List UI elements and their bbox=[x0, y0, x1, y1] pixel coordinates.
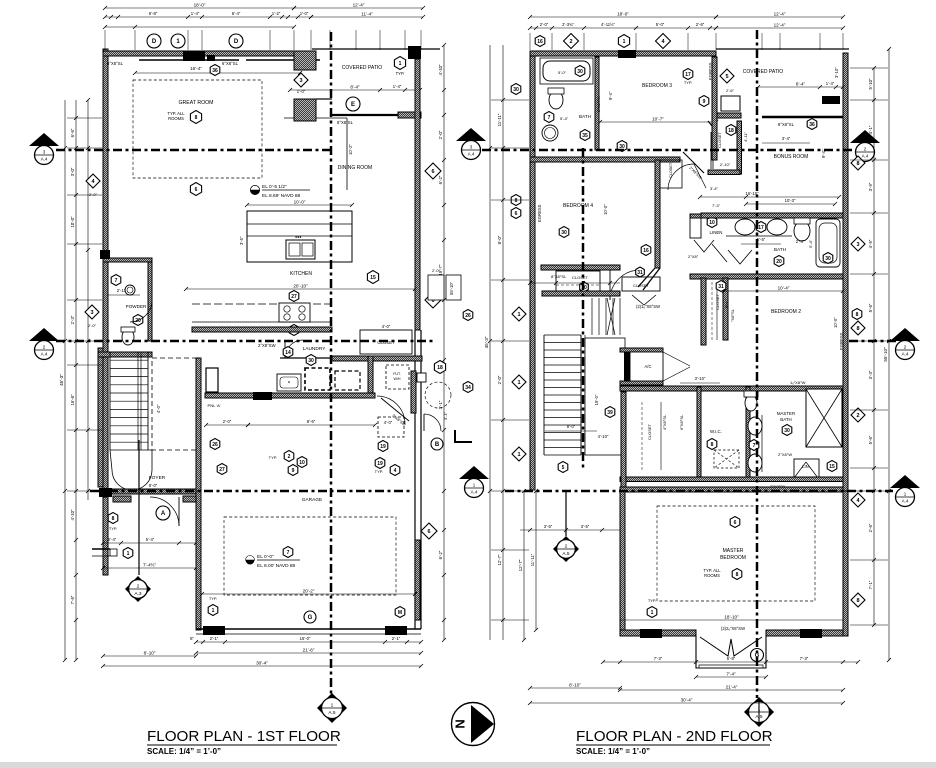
staircase treads 2nd floor bbox=[544, 335, 581, 455]
dimension 8'-10 row 2nd bbox=[528, 683, 622, 691]
svg-text:2’-0”: 2’-0” bbox=[540, 22, 549, 27]
svg-text:1’-4”: 1’-4” bbox=[191, 11, 200, 16]
svg-text:DINING ROOM: DINING ROOM bbox=[338, 165, 372, 171]
svg-text:PNL ‘A’: PNL ‘A’ bbox=[208, 403, 221, 408]
svg-text:4’-0”: 4’-0” bbox=[384, 420, 393, 425]
extension lines left edge left plan bbox=[67, 118, 102, 491]
label 12'-7 bottom left bbox=[518, 489, 526, 642]
svg-text:7: 7 bbox=[115, 278, 118, 284]
svg-text:20: 20 bbox=[776, 259, 782, 265]
svg-text:SCALE: 1/4” = 1’-0”: SCALE: 1/4” = 1’-0” bbox=[147, 747, 221, 756]
kitchen counter lower bbox=[192, 304, 332, 322]
dimension 7'-4 row 2nd bbox=[694, 672, 768, 680]
svg-text:20’-2”: 20’-2” bbox=[303, 589, 315, 594]
svg-text:2: 2 bbox=[288, 454, 291, 460]
hexagon 30 hall bbox=[306, 355, 316, 366]
diamond 4 top right plan bbox=[656, 34, 671, 49]
svg-text:M: M bbox=[398, 610, 402, 616]
svg-text:G: G bbox=[308, 615, 313, 621]
room label GARAGE bbox=[302, 497, 323, 503]
svg-text:3’-5”: 3’-5” bbox=[239, 236, 244, 245]
room label BEDROOM 4 bbox=[563, 203, 593, 209]
wall front entry bbox=[99, 488, 196, 497]
svg-text:°X8°SL: °X8°SL bbox=[730, 308, 735, 322]
hexagon 16 hall bbox=[641, 245, 651, 256]
svg-text:26: 26 bbox=[212, 442, 218, 448]
dashed circle water heater bbox=[425, 382, 451, 408]
dimension 18'-0 top right plan bbox=[528, 12, 718, 20]
svg-text:5’-6”: 5’-6” bbox=[868, 303, 873, 312]
dimension column right of left plan bbox=[438, 43, 446, 642]
label 2'-11 bbox=[107, 288, 140, 295]
label EL 8.00 NAVD garage bbox=[257, 563, 296, 569]
hexagon 1 porch bbox=[110, 548, 133, 559]
label 2x8 SW laundry bbox=[258, 343, 276, 348]
svg-text:TYP.: TYP. bbox=[209, 596, 217, 601]
stair center rail bbox=[138, 352, 141, 450]
svg-text:5’-4”: 5’-4” bbox=[808, 239, 813, 248]
svg-text:2’-0”: 2’-0” bbox=[432, 268, 441, 273]
window header patio 2nd bbox=[822, 96, 840, 104]
svg-text:COVERED PATIO: COVERED PATIO bbox=[342, 65, 382, 71]
svg-text:4°X8°SL: 4°X8°SL bbox=[662, 414, 667, 430]
AC closet bbox=[620, 348, 663, 385]
svg-text:W/H: W/H bbox=[394, 377, 401, 381]
svg-text:2’-1”: 2’-1” bbox=[392, 636, 401, 641]
garage door posts bbox=[203, 626, 407, 635]
svg-text:18’-10”: 18’-10” bbox=[724, 615, 739, 620]
window header left wall bbox=[100, 250, 110, 259]
extension lines top left plan bbox=[105, 30, 421, 50]
section marker 2/A3 foyer bbox=[125, 576, 151, 602]
shower master bbox=[806, 389, 842, 447]
svg-text:6’-4”: 6’-4” bbox=[232, 11, 241, 16]
svg-text:CLOSET: CLOSET bbox=[669, 162, 673, 178]
hexagon 7 bath2 bbox=[544, 112, 568, 123]
svg-text:POWDER: POWDER bbox=[126, 304, 147, 309]
dimension 10'-7 bed3 bbox=[598, 117, 718, 125]
svg-text:18’-0”: 18’-0” bbox=[194, 3, 206, 8]
svg-text:30’-4”: 30’-4” bbox=[256, 661, 268, 666]
svg-text:8: 8 bbox=[856, 312, 859, 318]
diamond 4 left wall bbox=[86, 174, 100, 197]
hexagon 17 bath2 bbox=[756, 222, 766, 233]
svg-text:7’-1”: 7’-1” bbox=[868, 580, 873, 589]
circle marker D bbox=[147, 34, 161, 48]
window hatch right wall low bbox=[415, 540, 420, 620]
diamond 2 top right plan bbox=[564, 34, 579, 49]
svg-text:8’-4”: 8’-4” bbox=[796, 82, 806, 87]
svg-text:6’-8”: 6’-8” bbox=[149, 11, 158, 16]
svg-text:3’-4”: 3’-4” bbox=[782, 136, 791, 141]
label 10'-0 bed4 bbox=[603, 204, 608, 215]
label 10'-0 bed2 bbox=[833, 317, 838, 328]
svg-text:7’-3”: 7’-3” bbox=[800, 656, 809, 661]
room label DINING ROOM bbox=[338, 165, 372, 171]
svg-text:18: 18 bbox=[728, 128, 734, 134]
svg-text:6: 6 bbox=[195, 187, 198, 193]
hexagon 9 typ bbox=[288, 465, 298, 476]
svg-text:CLOSET: CLOSET bbox=[572, 275, 589, 280]
svg-text:16’-4”: 16’-4” bbox=[190, 66, 202, 71]
svg-text:BONUS ROOM: BONUS ROOM bbox=[774, 154, 809, 160]
hexagon 35 bath wall bbox=[580, 130, 590, 141]
master ceiling dashed rect bbox=[657, 506, 815, 601]
label CLOSET rot master bbox=[642, 402, 661, 470]
garage ceiling dashed rect bbox=[224, 517, 396, 595]
section dash line y341 left plan bbox=[56, 340, 436, 343]
label CLOSET bed2 bbox=[715, 293, 720, 310]
dimension 8'-10 row bbox=[101, 651, 198, 659]
hexagon 18 right wall bbox=[434, 361, 445, 374]
svg-text:10’-7”: 10’-7” bbox=[652, 117, 664, 122]
svg-text:CLOSET: CLOSET bbox=[715, 293, 720, 310]
dimension garage door row bbox=[190, 636, 423, 644]
svg-text:4’-11½”: 4’-11½” bbox=[601, 22, 615, 27]
dimension 20'-10 kitchen bbox=[184, 284, 417, 292]
svg-text:●●●: ●●● bbox=[295, 235, 301, 239]
stairwell walls bbox=[98, 348, 103, 487]
dimension 21'-6 row bbox=[194, 648, 423, 656]
hexagon 26 mudhx bbox=[210, 439, 220, 450]
label PNL A bbox=[208, 403, 221, 408]
hexagon 8 master bbox=[732, 569, 742, 580]
svg-text:MASTER: MASTER bbox=[723, 548, 744, 554]
grey footer strip bbox=[0, 762, 936, 768]
hexagon 16 rp top bbox=[535, 36, 545, 47]
section dash x583 right plan bbox=[582, 148, 585, 470]
svg-text:BEDROOM 3: BEDROOM 3 bbox=[642, 83, 672, 89]
wall bath right vertical bbox=[595, 57, 599, 150]
svg-text:4’-10”: 4’-10” bbox=[438, 64, 443, 76]
svg-text:5’-0”: 5’-0” bbox=[558, 70, 567, 75]
svg-text:W.I.C.: W.I.C. bbox=[710, 429, 722, 434]
room label BEDROOM 3 bbox=[642, 83, 672, 89]
diamond 6b right wall bbox=[425, 292, 441, 308]
interior wall top-right nook bbox=[294, 51, 332, 121]
wall left exterior 2nd floor bbox=[530, 51, 535, 490]
room label MASTER BATH bbox=[777, 411, 795, 422]
svg-text:1’-2”: 1’-2” bbox=[272, 11, 281, 16]
garage front wall bbox=[196, 629, 421, 634]
svg-text:MASTER: MASTER bbox=[777, 411, 795, 416]
svg-text:17: 17 bbox=[685, 72, 691, 78]
svg-text:3: 3 bbox=[856, 242, 859, 248]
section heavy y491 right plan bbox=[505, 490, 893, 493]
svg-text:FLOOR PLAN - 1ST FLOOR: FLOOR PLAN - 1ST FLOOR bbox=[147, 728, 341, 745]
label 3'-5 row bbox=[528, 281, 620, 285]
svg-text:A: A bbox=[161, 511, 166, 517]
svg-text:BATH: BATH bbox=[774, 247, 786, 252]
circle marker E bbox=[346, 97, 360, 111]
section dash vertical x331 left plan bbox=[330, 32, 333, 694]
svg-text:LINEN: LINEN bbox=[710, 230, 723, 235]
svg-text:FOYER: FOYER bbox=[149, 475, 166, 481]
wall master bath top bbox=[620, 386, 843, 391]
svg-text:36: 36 bbox=[809, 122, 815, 128]
svg-text:8: 8 bbox=[856, 326, 859, 332]
svg-text:8°X8°SL: 8°X8°SL bbox=[778, 122, 795, 127]
svg-text:6’-2”: 6’-2” bbox=[438, 175, 443, 184]
hexagon 39 ac bbox=[605, 407, 615, 418]
hexagon 1 master typ bbox=[647, 598, 657, 618]
svg-text:3’-5”: 3’-5” bbox=[581, 524, 590, 529]
svg-text:LIN.: LIN. bbox=[802, 464, 810, 469]
circle marker G garage bbox=[304, 611, 316, 623]
dashed box below closet bbox=[378, 417, 404, 437]
label 3'-10 mb bbox=[680, 376, 720, 383]
svg-text:12’-7”: 12’-7” bbox=[518, 559, 523, 571]
svg-text:GARAGE: GARAGE bbox=[302, 497, 323, 503]
svg-text:1’-0”: 1’-0” bbox=[297, 89, 306, 94]
lin closet master bbox=[794, 459, 837, 478]
svg-text:5’-8”: 5’-8” bbox=[727, 656, 736, 661]
label 3'-4 below closet bbox=[710, 186, 719, 191]
svg-text:18: 18 bbox=[437, 365, 443, 371]
wall master bath bottom bbox=[620, 477, 843, 482]
label 4'-0 garage door bbox=[384, 420, 393, 425]
label 2x8 PK mb bbox=[770, 484, 786, 489]
svg-text:30: 30 bbox=[784, 428, 790, 434]
svg-text:2’-1”: 2’-1” bbox=[210, 636, 219, 641]
svg-text:GREAT ROOM: GREAT ROOM bbox=[179, 100, 214, 106]
label 4x8 SL bbox=[662, 414, 684, 430]
svg-text:15: 15 bbox=[370, 275, 376, 281]
hexagon 36 bbox=[210, 65, 220, 76]
room label BEDROOM 2 bbox=[771, 309, 801, 315]
kitchen island counter bbox=[247, 211, 352, 262]
svg-text:2’-4”: 2’-4” bbox=[796, 239, 805, 244]
dimension 30'-4 row bbox=[101, 661, 423, 669]
svg-text:8: 8 bbox=[711, 442, 714, 448]
svg-text:A.4: A.4 bbox=[902, 499, 909, 504]
hexagon 20 bath2 bbox=[774, 256, 784, 267]
dimension column 45'-3" left edge bbox=[59, 100, 67, 662]
svg-text:3: 3 bbox=[299, 78, 302, 84]
svg-text:EL 8.00’ NAVD 88: EL 8.00’ NAVD 88 bbox=[257, 563, 296, 569]
svg-text:12’-4”: 12’-4” bbox=[774, 12, 786, 17]
svg-text:2’-0”: 2’-0” bbox=[89, 192, 98, 197]
room label BATH (2nd mid) bbox=[774, 247, 786, 252]
section dash line y150 left plan bbox=[56, 149, 332, 152]
svg-text:1: 1 bbox=[517, 452, 520, 458]
dimension 16'-10 row bbox=[698, 191, 841, 199]
wall top exterior 2nd floor bbox=[530, 51, 716, 56]
dimension column inner left edge bbox=[86, 98, 90, 500]
svg-text:7: 7 bbox=[753, 443, 756, 449]
wall bath2 top bbox=[701, 213, 843, 218]
dimension column 45'-3 between bbox=[484, 45, 492, 640]
svg-text:20’-10”: 20’-10” bbox=[293, 284, 308, 289]
wall right exterior 2nd floor bbox=[843, 53, 848, 625]
svg-text:7: 7 bbox=[287, 550, 290, 556]
patio header 8x8 SL bbox=[332, 112, 421, 125]
svg-text:12’-7”: 12’-7” bbox=[497, 554, 502, 566]
svg-text:EL 0’-0”: EL 0’-0” bbox=[257, 554, 274, 560]
hexagon 27 mudhx bbox=[217, 464, 227, 475]
svg-text:8’-6”: 8’-6” bbox=[307, 419, 316, 424]
svg-text:EGRESS: EGRESS bbox=[537, 204, 542, 222]
label (2)2x8 SW bbox=[721, 626, 745, 631]
svg-text:A.3: A.3 bbox=[134, 591, 142, 597]
svg-text:7’-6”: 7’-6” bbox=[70, 595, 75, 604]
dimension 20'-2 garage bbox=[200, 589, 417, 597]
section marker 1/A5 bottom right plan bbox=[744, 697, 774, 727]
label 8'-0 stairs 2nd bbox=[545, 424, 597, 431]
closet block bonus bbox=[708, 121, 748, 175]
toilet powder bbox=[121, 327, 135, 345]
label 3'-5 island bbox=[239, 236, 244, 245]
svg-text:3’-10”: 3’-10” bbox=[695, 376, 706, 381]
dimension 30'-4 row 2nd bbox=[528, 698, 845, 706]
svg-text:2’-6”: 2’-6” bbox=[696, 22, 705, 27]
label 6x8 SL right bbox=[222, 61, 239, 66]
diamond 3 left wall bbox=[85, 305, 99, 328]
svg-text:8°X8°SL: 8°X8°SL bbox=[551, 274, 567, 279]
black corner mark mid bbox=[455, 430, 472, 442]
hexagon 10 linen bbox=[707, 217, 717, 228]
svg-text:6’-1”: 6’-1” bbox=[724, 299, 729, 308]
room label MASTER BEDROOM bbox=[720, 548, 746, 561]
svg-text:10’-0”: 10’-0” bbox=[70, 216, 75, 228]
toilet 2nd bath bbox=[548, 88, 564, 109]
linen door fold bbox=[694, 240, 714, 252]
label 9'-4 bed3 bbox=[608, 91, 613, 100]
svg-text:8: 8 bbox=[195, 115, 198, 121]
svg-text:3’-0”: 3’-0” bbox=[70, 167, 75, 176]
svg-text:2’-3¾”: 2’-3¾” bbox=[562, 22, 574, 27]
porch left edge bbox=[92, 497, 110, 575]
window sill lines top wall bbox=[139, 59, 320, 61]
wall bed2 closet left bbox=[701, 278, 706, 345]
circle marker 1 top bbox=[171, 34, 185, 48]
svg-text:6°X8°SL: 6°X8°SL bbox=[107, 61, 124, 66]
svg-text:31: 31 bbox=[637, 270, 643, 276]
bathtub 2nd floor bbox=[540, 58, 593, 84]
svg-text:1’-4”: 1’-4” bbox=[393, 84, 402, 89]
hexagon 6 master bbox=[730, 517, 740, 528]
covered patio right edge bbox=[415, 49, 419, 118]
svg-text:30: 30 bbox=[513, 87, 519, 93]
room label KITCHEN bbox=[290, 271, 312, 277]
svg-text:A/C: A/C bbox=[645, 364, 652, 369]
svg-text:SCALE: 1/4” = 1’-0”: SCALE: 1/4” = 1’-0” bbox=[576, 747, 650, 756]
svg-text:11’-11”: 11’-11” bbox=[497, 113, 502, 126]
label WIC bbox=[707, 429, 739, 468]
wall left exterior 1st floor bbox=[103, 49, 108, 497]
dimension 8'-4 patio 2nd bbox=[756, 81, 845, 89]
dimension 16'-4 under top wall bbox=[133, 66, 302, 75]
hexagon 8 great room bbox=[190, 111, 201, 124]
dimension 7'-4 porch bbox=[101, 562, 198, 571]
svg-text:A.4: A.4 bbox=[468, 152, 475, 157]
svg-text:2’-3”: 2’-3” bbox=[70, 315, 75, 324]
wall master bedroom top bbox=[620, 487, 843, 492]
svg-text:4’-1”: 4’-1” bbox=[868, 125, 873, 134]
label 4'-0 stairs bbox=[156, 404, 161, 413]
dimension 10'-4 bed2 bbox=[722, 286, 845, 294]
diamond 1 rp b bbox=[512, 375, 526, 389]
wall top exterior 1st floor bbox=[103, 51, 312, 56]
dimension 2'-0 mud bbox=[204, 419, 250, 427]
label 6x8 SL left bbox=[107, 61, 124, 66]
svg-text:BATH: BATH bbox=[579, 114, 591, 119]
ceiling break dashed rect great room bbox=[133, 80, 262, 178]
label EGRESS bed3 bbox=[708, 62, 713, 80]
label 3'-1 back door bbox=[443, 411, 448, 420]
svg-text:3: 3 bbox=[90, 310, 93, 316]
circle marker D2 bbox=[229, 34, 243, 48]
scale label 1st floor bbox=[147, 747, 221, 756]
svg-text:1: 1 bbox=[399, 61, 402, 67]
svg-text:4: 4 bbox=[394, 468, 397, 474]
label (2)1x8 SW bbox=[636, 304, 660, 309]
svg-text:4’-0”: 4’-0” bbox=[382, 324, 391, 329]
diamond 1 rp a bbox=[512, 307, 526, 321]
room label POWDER bbox=[126, 304, 147, 309]
dimension 10'-0 island bbox=[245, 200, 354, 208]
svg-text:9: 9 bbox=[292, 468, 295, 474]
svg-text:18’-0”: 18’-0” bbox=[617, 12, 629, 17]
svg-text:TYP.: TYP. bbox=[684, 80, 692, 85]
svg-text:2’-6”: 2’-6” bbox=[726, 88, 735, 93]
svg-text:2’-0”: 2’-0” bbox=[497, 375, 502, 384]
elevation marker great room bbox=[251, 186, 260, 195]
svg-text:ROOMS: ROOMS bbox=[168, 116, 184, 121]
back door arc right wall bbox=[424, 414, 441, 431]
svg-text:8’-10”: 8’-10” bbox=[144, 651, 156, 656]
svg-text:5’-4”: 5’-4” bbox=[560, 116, 569, 121]
angled door to closet bonus bbox=[683, 152, 704, 180]
wall kitchen bottom bbox=[192, 327, 332, 332]
diamond 8 right edge c bbox=[851, 593, 865, 607]
label 2'-10 closet bonus bbox=[720, 162, 731, 167]
vanity bath2 bbox=[726, 218, 792, 236]
dimension 21'-4 row 2nd bbox=[618, 685, 845, 693]
svg-text:16: 16 bbox=[643, 248, 649, 254]
svg-text:15: 15 bbox=[829, 464, 835, 470]
svg-text:1’-4”: 1’-4” bbox=[826, 81, 835, 86]
garage closet door arc bbox=[377, 396, 409, 427]
svg-text:4’-0”: 4’-0” bbox=[156, 404, 161, 413]
extension lines left edge right plan bbox=[491, 100, 529, 620]
svg-text:10’-0”: 10’-0” bbox=[603, 204, 608, 215]
section dash vertical x139 foyer bbox=[138, 440, 140, 575]
hexagon 14 laundry bbox=[283, 347, 293, 358]
svg-text:2°X8°W: 2°X8°W bbox=[778, 452, 792, 457]
north arrow bbox=[452, 703, 495, 746]
svg-text:TYP.: TYP. bbox=[648, 598, 656, 603]
section marker 2/A4 right outer bbox=[890, 328, 920, 360]
hexagon 30 tub2 bbox=[808, 239, 833, 263]
label 7'-3 below closet bbox=[712, 203, 721, 208]
wall master bedroom right bbox=[843, 491, 848, 636]
section marker 2/A4 right inner bbox=[850, 130, 880, 162]
svg-text:A.4: A.4 bbox=[41, 157, 48, 162]
svg-text:45’-3”: 45’-3” bbox=[59, 374, 64, 386]
future water heater dashed bbox=[386, 365, 409, 389]
svg-text:11’-11”: 11’-11” bbox=[530, 553, 535, 566]
hexagon 15 kitchen bbox=[367, 271, 378, 284]
svg-text:TYP.: TYP. bbox=[109, 526, 117, 531]
svg-text:34: 34 bbox=[465, 385, 471, 391]
node interior corner line bbox=[284, 118, 353, 190]
hexagon 17 range bbox=[289, 325, 299, 336]
dimension row3 left plan bbox=[103, 25, 296, 29]
wall powder room right bbox=[148, 262, 152, 341]
bed4 door arc bbox=[610, 270, 640, 300]
svg-text:8’-10”: 8’-10” bbox=[569, 683, 581, 688]
